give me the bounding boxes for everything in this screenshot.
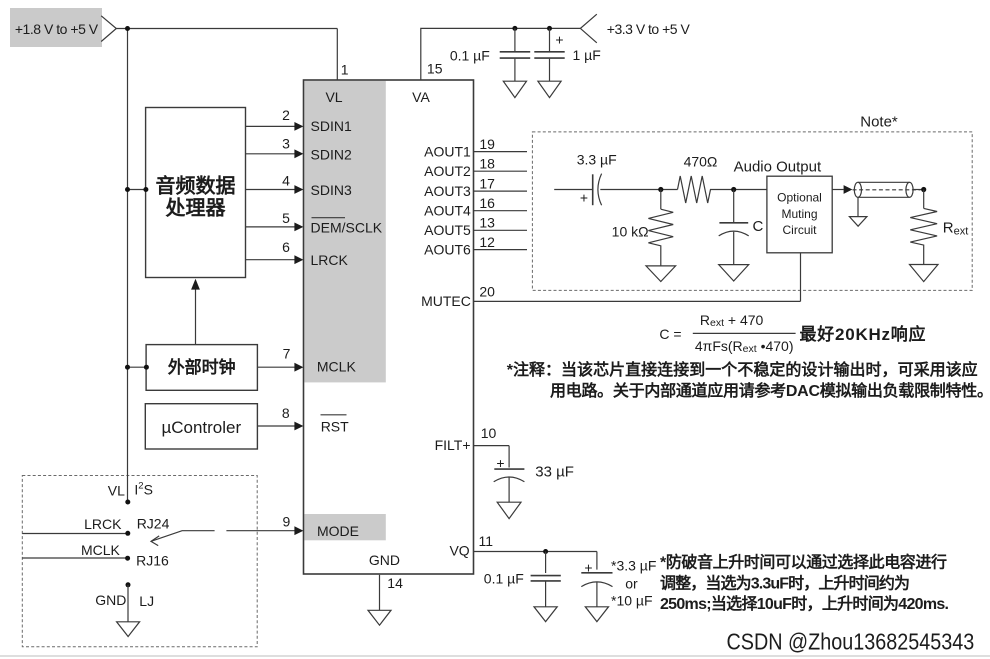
svg-text:最好20KHz响应: 最好20KHz响应 (800, 324, 926, 344)
svg-text:18: 18 (479, 156, 495, 172)
svg-text:VA: VA (412, 89, 430, 105)
svg-text:AOUT6: AOUT6 (424, 241, 471, 257)
svg-text:CSDN @Zhou13682545343: CSDN @Zhou13682545343 (727, 629, 975, 655)
svg-text:10 kΩ: 10 kΩ (612, 224, 649, 240)
svg-text:AOUT4: AOUT4 (424, 203, 471, 219)
svg-text:12: 12 (479, 234, 495, 250)
svg-text:8: 8 (282, 405, 290, 421)
svg-text:17: 17 (479, 175, 495, 191)
svg-text:VL: VL (108, 482, 125, 498)
svg-text:3: 3 (282, 136, 290, 152)
svg-text:*10 µF: *10 µF (611, 593, 653, 609)
svg-text:2: 2 (282, 107, 290, 123)
svg-text:AOUT1: AOUT1 (424, 143, 471, 159)
svg-text:0.1 µF: 0.1 µF (484, 570, 524, 586)
svg-text:+: + (580, 189, 588, 205)
svg-text:*3.3 µF: *3.3 µF (611, 557, 656, 573)
svg-text:GND: GND (369, 552, 400, 568)
svg-text:SDIN3: SDIN3 (311, 182, 352, 198)
svg-text:VL: VL (325, 89, 342, 105)
svg-text:C =: C = (659, 326, 681, 342)
svg-text:Muting: Muting (781, 207, 817, 221)
svg-text:用电路。关于内部通道应用请参考DAC模拟输出负载限制特性。: 用电路。关于内部通道应用请参考DAC模拟输出负载限制特性。 (550, 381, 990, 400)
svg-text:0.1 µF: 0.1 µF (450, 48, 490, 64)
svg-text:Audio Output: Audio Output (734, 159, 822, 176)
svg-text:*注释：当该芯片直接连接到一个不稳定的设计输出时，可采用该应: *注释：当该芯片直接连接到一个不稳定的设计输出时，可采用该应 (507, 360, 978, 379)
svg-text:20: 20 (479, 284, 495, 300)
svg-text:外部时钟: 外部时钟 (168, 357, 236, 377)
svg-text:or: or (625, 576, 638, 592)
svg-text:VQ: VQ (449, 543, 469, 559)
svg-text:SDIN2: SDIN2 (311, 146, 352, 162)
svg-text:19: 19 (479, 136, 495, 152)
svg-text:7: 7 (283, 346, 291, 362)
svg-text:16: 16 (479, 195, 495, 211)
svg-text:I2S: I2S (134, 480, 153, 498)
svg-text:AOUT2: AOUT2 (424, 163, 471, 179)
svg-text:33 µF: 33 µF (535, 463, 574, 480)
svg-text:LJ: LJ (139, 593, 154, 609)
svg-text:AOUT5: AOUT5 (424, 222, 471, 238)
svg-text:470Ω: 470Ω (684, 154, 718, 170)
svg-text:5: 5 (282, 210, 290, 226)
svg-text:+3.3 V to +5 V: +3.3 V to +5 V (607, 21, 691, 37)
svg-text:*防破音上升时间可以通过选择此电容进行: *防破音上升时间可以通过选择此电容进行 (660, 553, 947, 572)
svg-text:LRCK: LRCK (84, 516, 122, 532)
svg-text:SDIN1: SDIN1 (311, 118, 352, 134)
svg-text:1 µF: 1 µF (573, 47, 601, 63)
svg-text:+: + (584, 560, 592, 576)
svg-text:Rext + 470: Rext + 470 (700, 312, 764, 329)
svg-text:14: 14 (387, 575, 403, 591)
svg-text:+: + (555, 32, 563, 48)
svg-text:RJ24: RJ24 (137, 515, 170, 531)
svg-text:4: 4 (282, 172, 290, 188)
svg-text:13: 13 (479, 215, 495, 231)
svg-text:MCLK: MCLK (317, 358, 357, 374)
svg-text:9: 9 (283, 513, 291, 529)
svg-text:C: C (753, 218, 764, 235)
svg-text:µControler: µControler (161, 418, 241, 437)
svg-text:MODE: MODE (317, 523, 359, 539)
svg-text:10: 10 (481, 425, 497, 441)
svg-text:3.3 µF: 3.3 µF (577, 151, 617, 167)
svg-text:11: 11 (479, 533, 494, 549)
svg-text:MCLK: MCLK (81, 542, 121, 558)
svg-text:RJ16: RJ16 (136, 552, 169, 568)
svg-text:Optional: Optional (777, 191, 822, 205)
svg-text:LRCK: LRCK (311, 252, 349, 268)
svg-text:Circuit: Circuit (782, 223, 817, 237)
svg-text:音频数据: 音频数据 (156, 173, 236, 197)
svg-text:+: + (496, 455, 504, 471)
svg-text:MUTEC: MUTEC (421, 293, 471, 309)
svg-text:FILT+: FILT+ (435, 437, 471, 453)
svg-text:RST: RST (321, 418, 349, 434)
svg-text:1: 1 (341, 61, 349, 77)
svg-text:15: 15 (427, 60, 443, 76)
svg-text:250ms;当选择10uF时，上升时间为420ms.: 250ms;当选择10uF时，上升时间为420ms. (660, 594, 949, 613)
svg-text:6: 6 (282, 239, 290, 255)
svg-text:DEM/SCLK: DEM/SCLK (311, 219, 383, 235)
svg-text:调整，当选为3.3uF时，上升时间约为: 调整，当选为3.3uF时，上升时间约为 (660, 573, 910, 592)
svg-text:+1.8 V to +5 V: +1.8 V to +5 V (15, 21, 99, 37)
svg-text:AOUT3: AOUT3 (424, 183, 471, 199)
svg-text:Note*: Note* (860, 114, 898, 131)
svg-text:处理器: 处理器 (165, 195, 227, 219)
svg-text:GND: GND (95, 592, 126, 608)
